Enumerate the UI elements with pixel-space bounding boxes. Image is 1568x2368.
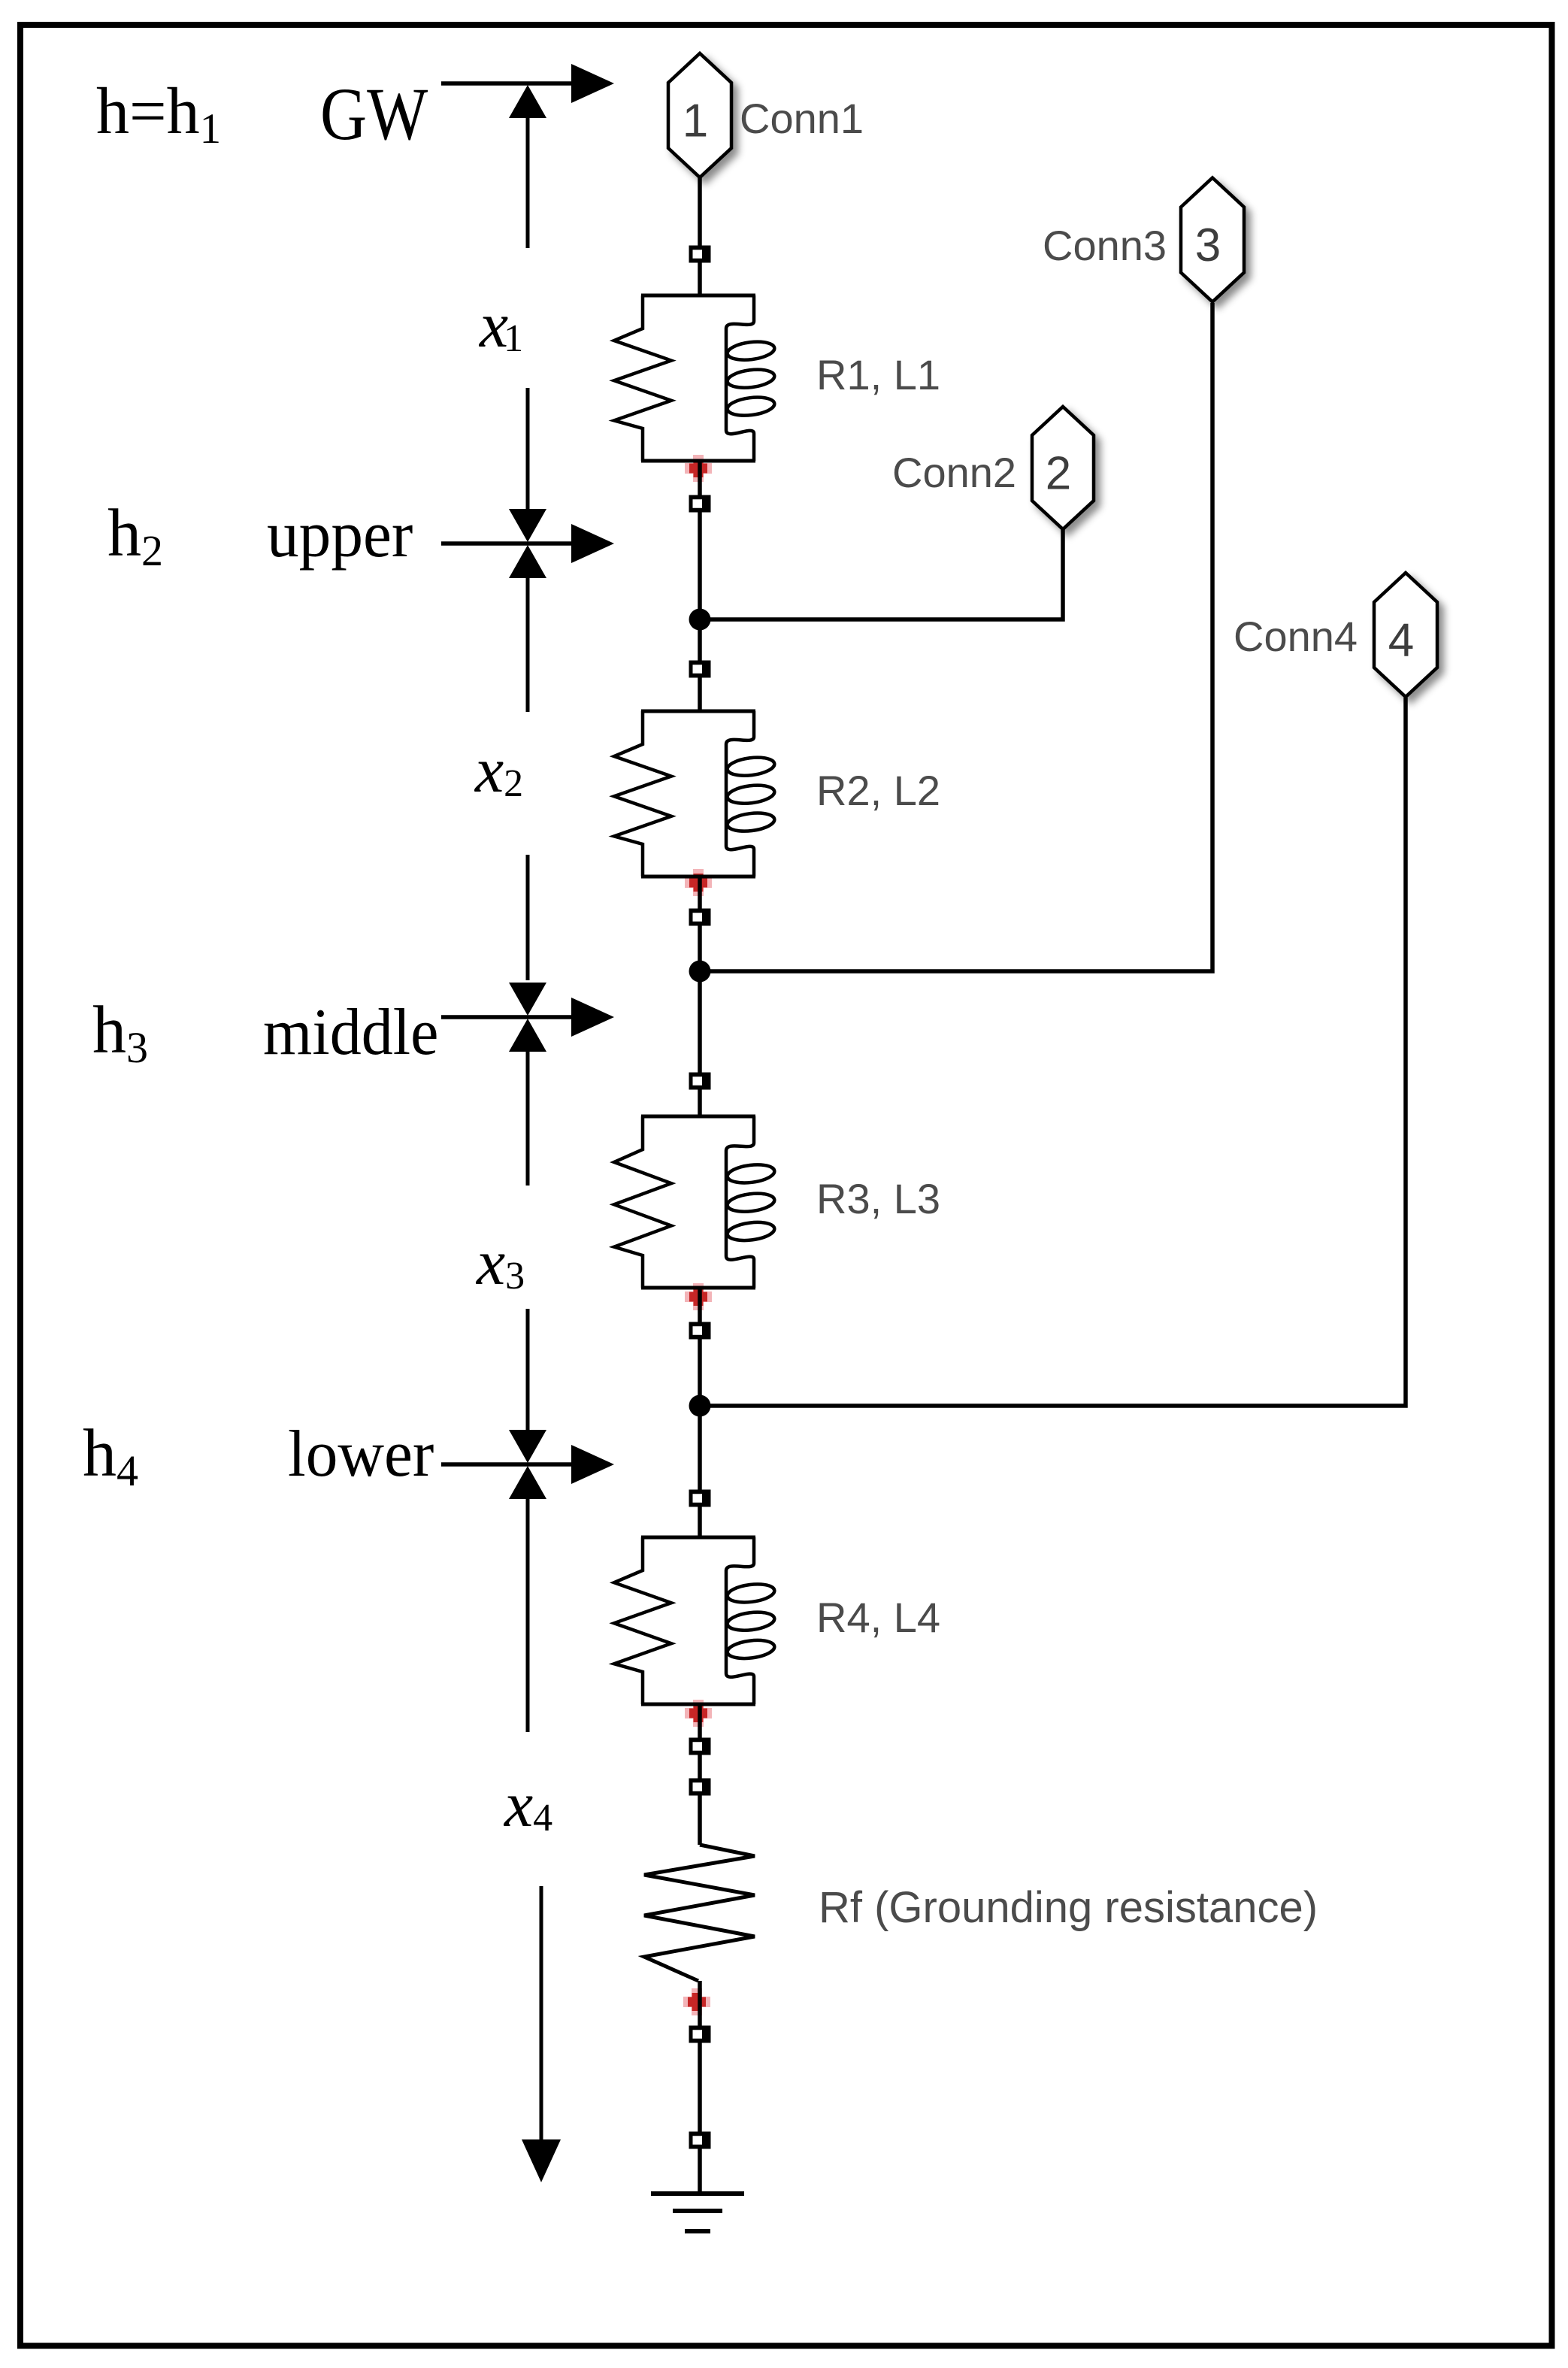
- svg-text:upper: upper: [267, 498, 413, 571]
- svg-text:Conn3: Conn3: [1043, 222, 1167, 269]
- svg-text:R3, L3: R3, L3: [816, 1175, 940, 1222]
- svg-text:Conn1: Conn1: [740, 95, 864, 142]
- svg-text:middle: middle: [263, 995, 438, 1068]
- svg-text:R4, L4: R4, L4: [816, 1594, 940, 1641]
- svg-text:R2, L2: R2, L2: [816, 767, 940, 814]
- svg-text:2: 2: [1046, 448, 1071, 500]
- svg-text:4: 4: [1388, 615, 1414, 667]
- svg-text:Rf (Grounding resistance): Rf (Grounding resistance): [819, 1883, 1318, 1932]
- svg-text:3: 3: [1195, 220, 1221, 271]
- svg-text:1: 1: [683, 95, 708, 147]
- svg-text:lower: lower: [288, 1417, 434, 1490]
- svg-text:R1, L1: R1, L1: [816, 351, 940, 398]
- svg-text:Conn2: Conn2: [892, 449, 1016, 496]
- svg-text:Conn4: Conn4: [1234, 613, 1358, 660]
- svg-text:GW: GW: [320, 73, 428, 156]
